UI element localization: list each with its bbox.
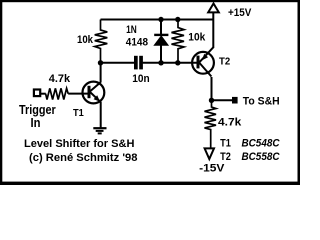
wire top rail <box>101 19 214 21</box>
svg-text:T1: T1 <box>220 137 231 149</box>
resistor R4 4.7k (right) <box>205 100 217 148</box>
terminal Trigger In <box>34 90 40 97</box>
label 1N 4148 <box>126 24 148 48</box>
svg-text:+15V: +15V <box>228 7 252 19</box>
svg-text:4148: 4148 <box>126 37 148 49</box>
wire trigger <box>41 93 46 95</box>
svg-text:To S&H: To S&H <box>243 95 280 107</box>
svg-text:T1: T1 <box>73 108 84 119</box>
node junction mid resistor <box>175 60 180 65</box>
wire T1 collector up <box>100 63 102 83</box>
node junction top diode <box>158 17 163 22</box>
svg-text:10k: 10k <box>77 34 94 46</box>
node junction mid left <box>98 60 103 65</box>
wire output <box>212 99 233 101</box>
border frame <box>0 0 300 185</box>
svg-text:10k: 10k <box>188 32 206 44</box>
power -15V symbol <box>205 148 214 159</box>
svg-text:BC548C: BC548C <box>242 137 281 149</box>
svg-text:BC558C: BC558C <box>242 151 281 163</box>
resistor R3 4.7k (horizontal) <box>46 88 88 99</box>
capacitor C1 10n <box>134 56 143 70</box>
svg-text:1N: 1N <box>126 24 137 36</box>
svg-text:In: In <box>31 116 41 130</box>
power +15V symbol <box>208 4 219 13</box>
diode D1 1N4148 <box>154 20 168 64</box>
wire T1 emitter down <box>100 102 102 128</box>
wire T2 collector down <box>211 77 213 100</box>
transistor T2 (PNP) <box>192 47 214 76</box>
node junction top resistor <box>175 17 180 22</box>
ground <box>93 128 106 133</box>
wire mid rail <box>101 62 135 64</box>
resistor R2 10k (right) <box>172 20 185 64</box>
label T1 BC548C <box>220 137 280 149</box>
transistor T1 (NPN) <box>83 82 105 104</box>
svg-text:T2: T2 <box>220 151 231 163</box>
node junction mid diode <box>158 60 163 65</box>
svg-text:(c) René Schmitz '98: (c) René Schmitz '98 <box>29 152 138 164</box>
resistor R1 10k (left) <box>95 20 108 64</box>
label T2 BC558C <box>220 151 280 163</box>
terminal To S&H <box>232 97 238 104</box>
wire mid rail right <box>143 62 197 64</box>
svg-text:T2: T2 <box>219 57 231 68</box>
wire +15V stem <box>212 12 214 48</box>
svg-text:Level Shifter for S&H: Level Shifter for S&H <box>24 138 135 150</box>
svg-text:10n: 10n <box>132 73 150 85</box>
svg-text:-15V: -15V <box>199 162 225 174</box>
node output junction <box>209 98 214 103</box>
svg-text:4.7k: 4.7k <box>49 73 71 85</box>
svg-text:Trigger: Trigger <box>19 103 56 117</box>
svg-text:4.7k: 4.7k <box>218 116 242 128</box>
